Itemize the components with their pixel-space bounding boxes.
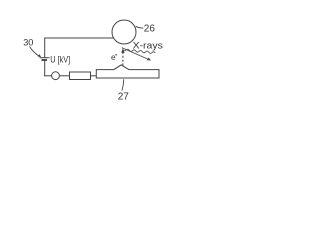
leader 30 arrowhead [38, 54, 42, 57]
electron beam arrowhead [121, 48, 124, 53]
X-ray straight arrowhead [147, 58, 152, 61]
svg-text:X-rays: X-rays [133, 41, 163, 52]
X-ray straight arrow [122, 48, 149, 60]
wire resistor to cathode block [91, 75, 97, 77]
svg-text:30: 30 [23, 38, 33, 48]
X-ray wavy arrow [123, 49, 156, 53]
svg-text:26: 26 [144, 24, 156, 35]
anode circle 26 [112, 20, 136, 44]
wire top horizontal [45, 37, 114, 39]
electron beam dashed arrow [122, 53, 124, 66]
svg-text:U [kV]: U [kV] [50, 53, 70, 64]
battery U source: long positive plate [40, 57, 50, 59]
leader 30 to battery [30, 47, 39, 56]
wire left vertical upper [44, 38, 46, 58]
wire lamp to resistor [59, 75, 69, 77]
svg-text:e: e [111, 53, 116, 62]
svg-text:27: 27 [118, 92, 130, 103]
wire left vertical lower [44, 61, 46, 76]
resistor box [70, 72, 91, 80]
battery U source: short negative plate [42, 59, 48, 61]
label 26 leader [136, 26, 144, 28]
cathode block 27 with emitter tip [96, 65, 159, 78]
wire bottom to lamp [44, 75, 51, 77]
label 27 leader [122, 79, 124, 90]
lamp / filament supply circle [52, 72, 60, 80]
